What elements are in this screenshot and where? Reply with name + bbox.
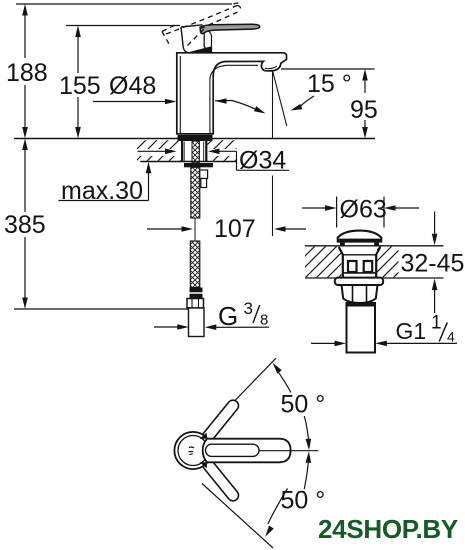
svg-text:8: 8 bbox=[260, 311, 268, 328]
dimension G1 1/4 bbox=[311, 313, 457, 347]
faucet body bbox=[177, 53, 287, 134]
dimension 385 bbox=[4, 139, 46, 310]
countertop cross-section left bbox=[137, 140, 237, 161]
dimension 32-45 vertical bbox=[432, 212, 438, 314]
top view: lever inner bbox=[206, 444, 260, 456]
top view: center marks bbox=[189, 447, 194, 455]
drain cap dome bbox=[337, 231, 382, 239]
raised handle dashed outline bbox=[162, 2, 242, 46]
top view: rotated grip lower bbox=[200, 456, 241, 503]
countertop cross-section right bbox=[305, 246, 444, 278]
svg-text:155: 155 bbox=[59, 72, 101, 100]
angle arcs and arrows 50 upper bbox=[270, 361, 325, 450]
G3/8 nut bbox=[187, 299, 204, 309]
svg-text:188: 188 bbox=[6, 59, 48, 87]
hose connector bbox=[190, 288, 203, 299]
counter top line bbox=[14, 138, 375, 140]
supply hose upper bbox=[191, 167, 200, 218]
svg-text:Ø34: Ø34 bbox=[239, 147, 286, 175]
svg-text:107: 107 bbox=[214, 215, 256, 243]
svg-text:G1: G1 bbox=[396, 318, 427, 344]
hose end reference line bbox=[14, 308, 189, 310]
top view: diagonal upper bbox=[204, 358, 276, 432]
svg-text:24SHOP.BY: 24SHOP.BY bbox=[318, 514, 458, 544]
drain cap base bar bbox=[337, 239, 383, 243]
svg-text:G: G bbox=[218, 301, 238, 331]
dimension 95 bbox=[281, 69, 378, 139]
dimension Ø48 bbox=[93, 72, 232, 104]
supply hose lower bbox=[190, 241, 200, 288]
top view: diagonal lower bbox=[202, 484, 273, 549]
svg-text:Ø63: Ø63 bbox=[340, 196, 387, 224]
handle base dark wedge bbox=[186, 46, 212, 53]
drain locknut bbox=[342, 285, 378, 303]
mounting shank bbox=[181, 141, 207, 163]
angle arcs and arrows 50 lower bbox=[263, 451, 325, 538]
svg-text:50 °: 50 ° bbox=[281, 391, 326, 419]
drain body bbox=[339, 247, 381, 278]
svg-text:50 °: 50 ° bbox=[281, 487, 326, 515]
handle neck bbox=[181, 25, 212, 53]
hose centerline bbox=[194, 218, 196, 241]
drain cap feet bbox=[340, 243, 345, 247]
supply pipe bbox=[189, 308, 205, 337]
top view: lever outer bbox=[203, 439, 291, 463]
svg-text:1: 1 bbox=[431, 313, 442, 334]
dimension 155 bbox=[59, 26, 101, 139]
mounting nut bbox=[184, 163, 213, 167]
top view: centerline bbox=[259, 450, 319, 452]
top reference line bbox=[16, 3, 232, 5]
drain washer bbox=[335, 278, 383, 285]
water spray 15 degree line bbox=[273, 71, 287, 127]
svg-text:385: 385 bbox=[4, 211, 46, 239]
svg-text:3: 3 bbox=[244, 299, 253, 318]
spout height reference line bbox=[66, 25, 180, 27]
short hose fitting bbox=[200, 170, 208, 188]
dimension Ø34 bbox=[138, 141, 290, 175]
water stream vertical line bbox=[272, 71, 274, 139]
top view: dark wedge lower bbox=[200, 462, 208, 468]
leader arc from Ø48 arrow to water line bbox=[232, 101, 267, 117]
svg-text:95: 95 bbox=[350, 96, 378, 124]
handle lever bbox=[200, 24, 260, 33]
dimension G3/8 bbox=[154, 299, 269, 331]
top view: rotated grip upper bbox=[200, 398, 241, 445]
svg-text:32-45: 32-45 bbox=[401, 250, 465, 278]
dimension 107 bbox=[147, 215, 306, 243]
svg-text:Ø48: Ø48 bbox=[109, 72, 156, 100]
label max.30 bbox=[59, 162, 152, 205]
svg-text:4: 4 bbox=[447, 329, 455, 345]
dimension 188 bbox=[6, 4, 48, 139]
top view: body circle bbox=[174, 432, 211, 469]
drain tailpipe bbox=[347, 303, 376, 353]
label 15 degrees bbox=[290, 70, 352, 113]
base flange bbox=[178, 135, 213, 141]
top view: dark wedge upper bbox=[200, 433, 208, 439]
svg-text:15 °: 15 ° bbox=[307, 70, 352, 98]
dimension Ø63 bbox=[302, 196, 419, 228]
